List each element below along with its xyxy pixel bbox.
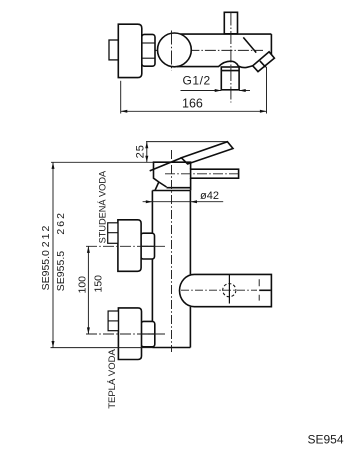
- 25 arrows: [145, 142, 148, 163]
- column centerline: [171, 150, 173, 352]
- shower arm (right): [179, 274, 271, 306]
- wall eccentric union (small rect behind flange): [109, 40, 119, 60]
- svg-text:ø42: ø42: [200, 190, 219, 202]
- rod centerline: [165, 173, 239, 175]
- lever top extension line: [146, 141, 227, 143]
- cartridge cap: [154, 162, 191, 190]
- top stub (shower outlet): [224, 12, 237, 34]
- hose outlet dashed circle: [223, 284, 236, 297]
- lower eccentric split: [108, 320, 118, 322]
- 166 dimension: [121, 67, 267, 114]
- svg-text:SE955.5: SE955.5: [55, 251, 67, 291]
- spout cut diagonal: [243, 37, 256, 52]
- aerator split line: [260, 61, 266, 67]
- upper eccentric union: [108, 223, 118, 244]
- spout body bottom edge with boss bump: [177, 61, 253, 67]
- G1/2 arrows: [215, 89, 246, 92]
- svg-text:100: 100: [77, 276, 89, 294]
- upper eccentric split: [108, 232, 118, 234]
- spout body top edge: [181, 33, 272, 35]
- holder vertical centerline: [258, 279, 260, 300]
- svg-text:166: 166: [182, 96, 203, 110]
- arm horizontal centerline: [181, 289, 257, 291]
- hex nut top view: [142, 34, 155, 66]
- lower eccentric union: [108, 311, 118, 331]
- svg-text:150: 150: [93, 275, 105, 293]
- hex nut flats: [142, 42, 155, 44]
- G1/2 dimension: [181, 90, 251, 92]
- bottom stub thread line: [221, 70, 239, 72]
- svg-text:SE955.0: SE955.0: [40, 250, 52, 290]
- lower valve centerline: [86, 333, 165, 335]
- svg-text:STUDENÁ VODA: STUDENÁ VODA: [97, 170, 107, 243]
- 25 dimension line: [146, 142, 148, 163]
- 212/262 dimension line: [52, 162, 54, 347]
- svg-text:25: 25: [135, 144, 147, 158]
- o42 arrows: [146, 200, 197, 203]
- handle rod (horizontal): [191, 169, 239, 178]
- 166 arrows: [121, 110, 267, 113]
- upper valve block: [118, 220, 141, 271]
- holder split line: [259, 289, 271, 291]
- vertical centerline through ball: [171, 31, 173, 71]
- horizontal centerline top view: [155, 49, 263, 51]
- lower hex mid flat line: [141, 333, 155, 335]
- lower valve hex: [141, 321, 155, 346]
- wall flange: [118, 24, 142, 77]
- column bottom extension line: [51, 347, 153, 349]
- lower valve block: [118, 308, 141, 360]
- svg-text:SE954: SE954: [308, 433, 344, 447]
- 100/150 dimension line: [87, 246, 89, 334]
- cap top extension line: [51, 161, 154, 163]
- upper valve hex: [141, 233, 155, 259]
- upper hex mid flat line: [141, 245, 155, 247]
- bottom stub G1/2 pipe: [221, 67, 239, 90]
- o42 dimension: [143, 201, 224, 203]
- upper valve centerline: [86, 245, 165, 247]
- ball joint circle: [158, 33, 192, 67]
- hose outlet vertical line: [228, 274, 230, 303]
- spout body right edge: [270, 34, 272, 55]
- lever diagonal to cap left: [150, 158, 182, 171]
- handle lever (parallelogram): [181, 142, 233, 164]
- body column: [152, 191, 190, 348]
- aerator (45deg): [253, 52, 275, 72]
- svg-text:262: 262: [55, 211, 67, 235]
- svg-text:212: 212: [40, 224, 52, 248]
- svg-text:TEPLÁ VODA: TEPLÁ VODA: [107, 348, 118, 408]
- svg-text:G1/2: G1/2: [183, 73, 211, 87]
- stub vertical centerline: [230, 13, 232, 103]
